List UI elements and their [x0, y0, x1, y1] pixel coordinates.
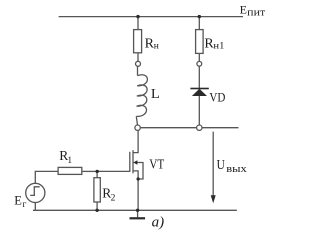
node: terminal circle below Rн — [136, 61, 141, 66]
junction dot R2 bottom — [95, 209, 98, 212]
wire: Rн1 bottom to terminal — [198, 53, 200, 61]
svg-text:н: н — [154, 42, 159, 52]
wire: source lead down to bottom rail — [137, 179, 139, 210]
svg-text:Е: Е — [240, 3, 247, 17]
svg-text:вых: вых — [226, 164, 247, 175]
inductor L — [136, 75, 147, 117]
node: open junction circle on output wire (diode branch) — [197, 125, 202, 130]
resistor Rн1 — [196, 30, 204, 54]
junction dot R1/R2 gate node — [96, 170, 99, 173]
junction dot source/bottom rail — [136, 209, 139, 212]
junction dot on rail (Rн branch) — [136, 15, 139, 18]
svg-text:VT: VT — [149, 157, 164, 172]
Uвых arrowhead — [211, 195, 216, 203]
resistor Rн — [134, 30, 142, 53]
svg-text:2: 2 — [111, 193, 116, 203]
svg-text:н1: н1 — [213, 42, 224, 52]
wire: Eг bottom to ground rail — [34, 203, 36, 211]
transistor VT source connection — [133, 171, 138, 179]
svg-text:Е: Е — [14, 193, 22, 207]
transistor VT substrate arrow — [133, 160, 137, 164]
svg-text:г: г — [23, 200, 27, 210]
resistor R1 — [58, 167, 82, 174]
wire: terminal to diode cathode — [198, 66, 200, 88]
transistor VT channel line — [132, 150, 134, 173]
wire: ground stub — [137, 210, 139, 217]
diode VD triangle (apex up, filled) — [192, 89, 207, 96]
svg-text:1: 1 — [67, 156, 72, 166]
wire: top supply rail — [59, 16, 243, 18]
transistor VT gate line — [129, 152, 131, 172]
wire: R2 top lead — [96, 171, 98, 177]
wire: Rн bottom to terminal — [137, 53, 139, 61]
wire: gate lead from R1/R2 junction — [97, 170, 130, 172]
wire: R1 right lead — [82, 170, 97, 172]
wire: Eг top bend to R1 — [35, 171, 58, 183]
svg-text:VD: VD — [209, 90, 225, 105]
resistor R2 — [94, 178, 100, 202]
diode VD cathode bar — [190, 88, 208, 90]
wire: R2 bottom lead — [96, 202, 98, 210]
node: terminal circle below Rн1 — [197, 61, 202, 66]
wire: bottom rail — [33, 209, 237, 211]
wire: drain node horizontal to right — [140, 127, 238, 129]
transistor VT drain connection — [133, 130, 138, 152]
svg-text:L: L — [151, 86, 160, 101]
wire: terminal to coil top — [137, 66, 139, 75]
junction dot substrate-source tie — [137, 177, 140, 180]
ground bar — [130, 217, 146, 219]
svg-text:а): а) — [152, 215, 165, 231]
node: open junction circle at drain node — [135, 125, 140, 130]
wire: rail to Rн1 top — [198, 17, 200, 30]
wire: coil bottom to node circle — [136, 116, 137, 125]
wire: rail to Rн top — [137, 17, 139, 30]
source Eг circle — [26, 183, 45, 202]
step symbol inside Eг — [30, 187, 40, 196]
junction dot on rail (Rн1 branch) — [198, 15, 201, 18]
wire: Uвых arrow line — [212, 132, 214, 196]
transistor VT substrate wire — [137, 163, 143, 180]
svg-text:U: U — [217, 157, 225, 172]
wire: diode anode to output node — [198, 96, 200, 125]
svg-text:пит: пит — [247, 7, 266, 18]
